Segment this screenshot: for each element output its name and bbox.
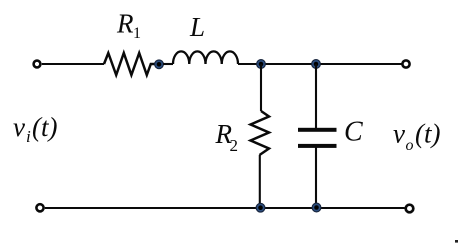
capacitor C bottom plate <box>298 144 337 148</box>
node B junction top of R2 <box>257 60 266 69</box>
svg-text:R: R <box>116 9 134 39</box>
svg-text:o: o <box>406 137 414 154</box>
node C junction top of capacitor <box>312 60 321 69</box>
svg-text:L: L <box>189 12 205 42</box>
terminal input top <box>34 61 41 68</box>
stray ink speck bottom-right <box>455 240 458 243</box>
svg-text:v: v <box>13 112 25 142</box>
inductor L <box>173 51 238 64</box>
terminal input bottom <box>36 204 43 211</box>
svg-text:i: i <box>26 127 31 146</box>
wire top of capacitor branch <box>315 64 317 128</box>
svg-text:2: 2 <box>230 136 239 155</box>
node E junction bottom of capacitor <box>312 203 321 212</box>
svg-text:C: C <box>344 117 363 148</box>
wire inductor to output terminal <box>238 63 406 65</box>
wire input to R1 <box>42 63 104 65</box>
node D junction bottom of R2 <box>256 203 265 212</box>
capacitor C top plate <box>298 128 337 132</box>
svg-text:1: 1 <box>133 25 141 42</box>
wire bottom of capacitor branch <box>315 148 317 209</box>
svg-text:(t): (t) <box>415 119 440 149</box>
terminal output bottom <box>406 205 414 213</box>
wire bottom of R2 branch <box>259 155 261 208</box>
bottom return wire <box>45 207 405 209</box>
terminal output top <box>402 60 409 67</box>
resistor R1 <box>104 53 158 75</box>
wire node A to inductor <box>163 63 173 65</box>
node A junction after R1 <box>155 60 164 69</box>
svg-text:v: v <box>393 119 405 149</box>
svg-text:(t): (t) <box>32 112 57 142</box>
resistor R2 <box>251 111 270 155</box>
wire top of R2 branch <box>260 64 262 111</box>
